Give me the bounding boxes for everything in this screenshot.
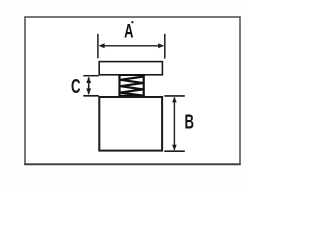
dimension B shaft [173, 98, 175, 150]
dimension B bottom tick [164, 150, 185, 152]
svg-text:B: B [184, 111, 194, 133]
svg-text:C: C [71, 75, 81, 97]
dimension C shaft [88, 78, 90, 94]
dimension A shaft [100, 45, 163, 47]
dimension B arrowhead down [172, 145, 177, 151]
antialias normalizer [0, 0, 1, 1]
border frame [25, 17, 240, 164]
dimension A extension tick right [164, 34, 166, 59]
threaded stem right edge [143, 75, 145, 97]
dimension A arrowhead right [158, 43, 164, 48]
body rectangle [99, 97, 162, 151]
label A prime dot [131, 21, 133, 23]
cap rectangle [99, 62, 162, 75]
border frame bottom edge (darker) [24, 163, 240, 165]
dimension A arrowhead left [99, 43, 105, 48]
threaded stem bottom line [118, 95, 144, 97]
dimension C top tick [83, 75, 99, 77]
thread zigzag [120, 77, 143, 96]
dimension B top tick [164, 95, 185, 97]
dimension B arrowhead up [172, 97, 177, 103]
dimension A extension tick left [97, 34, 99, 58]
threaded stem top line [118, 74, 144, 76]
svg-text:A: A [124, 21, 134, 42]
threaded stem left edge [118, 75, 120, 97]
dimension C bottom tick [83, 95, 99, 97]
dimension C arrowhead up [86, 77, 91, 84]
dimension C arrowhead down [86, 88, 91, 95]
